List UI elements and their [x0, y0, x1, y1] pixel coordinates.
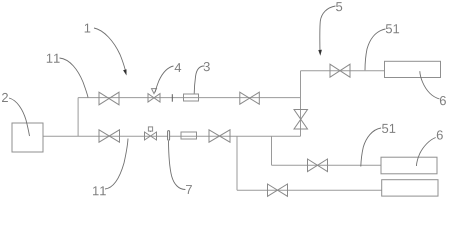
label 6 top — [440, 96, 446, 105]
valve bottom pipe right — [209, 130, 230, 142]
wire lowest pipe — [237, 189, 382, 191]
leader 11 bottom — [105, 139, 128, 190]
wire vertical split — [77, 98, 79, 137]
label 51 top — [386, 24, 399, 33]
valve lowest pipe — [268, 184, 288, 196]
leader 7 — [169, 141, 186, 190]
label 1 — [85, 24, 91, 33]
valve 11 top pipe — [99, 92, 119, 105]
label 5 — [336, 2, 342, 11]
valve small bottom square cap — [150, 131, 152, 132]
leader 51 top — [365, 29, 386, 70]
leader 3 — [194, 66, 204, 94]
box 6c bottom right — [382, 180, 438, 196]
valve 4 triangle cap — [152, 89, 157, 94]
valve 11 bottom pipe — [99, 130, 120, 142]
label 11 bottom — [93, 186, 106, 195]
leader 5 — [320, 6, 336, 53]
valve small bottom pipe — [145, 132, 157, 140]
label 3 — [204, 62, 210, 71]
leader 6 top — [420, 71, 440, 99]
valve middle pipe — [308, 159, 328, 172]
label 4 — [175, 63, 182, 72]
wire bottom pipe from box 2 to right tee — [43, 135, 301, 137]
leader 1 — [94, 28, 126, 73]
label 2 — [2, 93, 8, 102]
meter rect bottom pipe — [181, 132, 197, 139]
box 6a top right — [385, 61, 441, 77]
wire right vertical riser — [300, 71, 302, 137]
label 51 bottom — [382, 124, 395, 133]
valve top pipe right — [240, 92, 259, 104]
label 7 — [186, 185, 192, 194]
arrowhead leader 1 — [123, 69, 126, 75]
leader 11 top — [60, 58, 89, 98]
wire top right pipe to box 6a — [301, 70, 385, 72]
wire middle pipe — [272, 164, 382, 166]
wire top pipe — [78, 97, 300, 99]
box 6b middle right — [381, 157, 437, 174]
box 2 — [12, 123, 43, 152]
label 6 bottom — [437, 130, 443, 139]
label 11 top — [47, 54, 60, 63]
arrowhead leader 5 — [318, 50, 322, 56]
meter 3 rect top pipe — [184, 94, 199, 101]
wire drop 1 — [236, 136, 238, 190]
leader 6 bottom — [416, 138, 435, 167]
leader 2 — [9, 98, 30, 136]
wire drop 2 — [271, 136, 273, 165]
tick top pipe — [171, 94, 173, 102]
tick capsule bottom pipe — [168, 131, 170, 141]
valve vertical on riser — [294, 110, 308, 130]
leader 51 bottom — [361, 128, 381, 167]
leader 4 — [155, 66, 173, 92]
valve 4 small top pipe — [148, 94, 160, 102]
valve 5 top right pipe — [330, 64, 350, 77]
